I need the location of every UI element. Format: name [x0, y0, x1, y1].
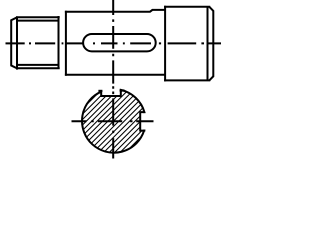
thread minor diameter bottom — [18, 64, 58, 66]
keyway slot — [83, 34, 156, 51]
vertical centerline / cutting plane — [112, 0, 114, 159]
section outline with keyway notches — [82, 90, 144, 153]
thread top edge — [16, 16, 60, 18]
thread bottom edge — [16, 67, 60, 69]
right end face — [212, 11, 214, 77]
middle segment bottom edge — [65, 74, 166, 76]
keyway notch ear tick left — [98, 90, 102, 92]
right segment bottom edge — [164, 79, 210, 81]
thread end face — [10, 20, 12, 66]
right segment top edge — [164, 6, 210, 8]
right chamfer diagonal bottom — [209, 76, 213, 80]
keyway notch ear tick right — [120, 89, 125, 91]
right notch top side tick — [143, 111, 145, 113]
thread chamfer line — [16, 16, 18, 69]
middle segment left edge — [65, 11, 67, 76]
section hatching — [31, 85, 193, 160]
section horizontal centerline — [72, 120, 154, 122]
thread shoulder face — [58, 16, 60, 69]
right chamfer diagonal top — [209, 7, 213, 11]
right chamfer line — [207, 7, 209, 81]
right notch bottom side tick — [143, 130, 145, 132]
chamfer diagonal bottom-left — [11, 65, 18, 68]
horizontal centerline main view — [6, 42, 222, 44]
right segment left edge — [164, 6, 166, 82]
middle segment top edge with step — [65, 10, 166, 12]
thread minor diameter top — [18, 20, 58, 22]
chamfer diagonal top-left — [11, 17, 18, 20]
